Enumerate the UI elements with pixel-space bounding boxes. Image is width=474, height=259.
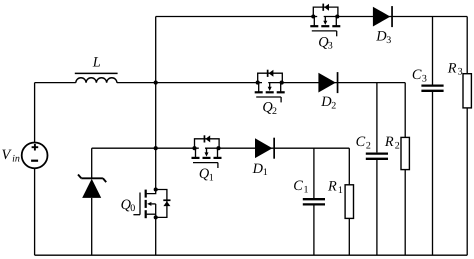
node: Q1 drain dot [192,146,196,150]
svg-text:3: 3 [386,35,391,46]
zener diode bar [81,177,103,179]
transistor Q1 body-diode bar [204,135,206,142]
svg-text:C: C [412,67,422,83]
svg-text:D: D [252,161,264,177]
wire: R1 branch top lead [348,148,350,185]
svg-text:1: 1 [304,185,309,196]
transistor Q2 bulk arrow [269,83,271,88]
wire: C1 branch top lead [313,148,315,198]
wire: right rail top (corner to R3) [466,17,468,74]
wire: row 3 from zener corner to Q1 [92,147,199,149]
transistor Q3 (Q3) body-diode loop [313,7,338,16]
wire: left rail top (corner to Vin) [34,83,36,143]
inductor L core bar [75,72,118,74]
diode D2 cathode bar [337,72,339,93]
wire: top rail (row 1) from node column to Q3 [156,16,318,18]
wire: R1 branch bottom lead [348,218,350,255]
node: Q3 source dot [335,14,339,18]
node: inductor/column junction [154,81,158,85]
transistor Q2 channel dashes [255,91,263,93]
diode D2 triangle [318,73,335,93]
transistor Q3 gate bar [312,30,337,32]
wire: row 2 inductor to Q2 [117,82,262,84]
wire: zener branch top lead [91,148,93,178]
transistor Q1 body-diode triangle [205,135,210,142]
wire: row 1 from Q3 channel to top-right corner [324,16,468,18]
wire: C3 branch top lead [432,17,434,85]
wire: right rail bottom (R3 to bottom rail) [466,108,468,255]
wire: Q0 source to bottom rail [155,217,157,255]
transistor Q2 body-diode bar [267,70,269,77]
diode D1 triangle [255,138,272,158]
source Vin circle [22,143,48,169]
svg-text:2: 2 [272,106,277,117]
transistor Q1 gate lead [217,163,219,168]
capacitor C1 [303,198,325,200]
svg-text:3: 3 [422,73,427,84]
transistor Q0 gate lead [133,214,140,216]
zener diode triangle [82,179,101,198]
wire: C1 branch bottom lead [313,206,315,256]
transistor Q3 channel dashes [310,25,318,27]
transistor Q0 bulk arrow [151,203,156,205]
svg-text:0: 0 [130,203,135,214]
wire: C2 branch top lead [376,83,378,153]
transistor Q1 source stub [217,148,219,158]
svg-text:1: 1 [338,185,343,196]
transistor Q0 drain stub [147,190,156,194]
node: Q2 drain dot [256,81,260,85]
wire: C2 branch bottom lead [376,160,378,255]
svg-text:3: 3 [458,67,463,78]
node: Q0 drain dot [154,187,158,191]
svg-text:2: 2 [395,141,400,152]
svg-text:R: R [327,179,337,195]
node: Q0 source dot [154,215,158,219]
source Vin plus sign [34,144,36,151]
inductor L coils [76,78,117,83]
transistor Q2 source stub [280,83,282,93]
svg-text:in: in [12,154,20,165]
wire: zener branch bottom lead [91,198,93,255]
svg-text:2: 2 [331,100,336,111]
diode D3 cathode bar [391,6,393,27]
svg-text:2: 2 [366,141,371,152]
transistor Q0 source jog [155,204,157,218]
transistor Q1 (Q1) body-diode loop [195,139,220,148]
node: row3/column junction [154,146,158,150]
wire: row 2 from Q2 channel to R2 corner [268,82,405,84]
transistor Q2 drain stub [258,83,260,93]
source Vin minus sign [31,160,38,162]
svg-text:1: 1 [209,172,214,183]
wire: left rail bottom (Vin to bottom rail) [34,168,36,255]
wire: node column row1 to row3 [155,17,157,149]
capacitor C2 [366,152,388,154]
wire: bottom rail [35,254,468,256]
svg-text:R: R [384,134,394,150]
transistor Q3 source stub [335,17,337,27]
transistor Q1 gate bar [193,162,218,164]
svg-text:C: C [356,134,366,150]
transistor Q3 gate lead [336,31,338,36]
svg-text:1: 1 [263,167,268,178]
wire: row 3 from Q1 channel to R1 corner [205,147,349,149]
transistor Q3 drain stub [313,17,315,27]
diode D3 triangle [373,7,390,27]
transistor Q3 body-diode bar [322,4,324,11]
transistor Q3 bulk arrow [324,17,326,22]
transistor Q2 body-diode triangle [269,70,274,77]
node: Q1 source dot [216,146,220,150]
transistor Q0 body-diode loop [156,190,167,218]
transistor Q0 channel dashes [145,190,147,198]
wire: R2 branch bottom lead [404,170,406,256]
resistor R2 body [401,137,409,169]
transistor Q0 body-diode bar [163,199,170,201]
svg-text:L: L [92,55,101,71]
svg-text:C: C [293,178,303,194]
resistor R3 body [463,74,471,108]
svg-text:R: R [447,60,457,76]
wire: node column row3 to Q0 drain [155,148,157,189]
svg-text:3: 3 [328,41,333,52]
wire: row 2 left rail corner to inductor [35,82,76,84]
transistor Q0 body-diode triangle [163,201,170,206]
transistor Q1 drain stub [195,148,197,158]
capacitor C3 [421,84,443,86]
node: Q3 drain dot [311,14,315,18]
transistor Q2 gate lead [280,97,282,102]
transistor Q1 channel dashes [192,157,200,159]
wire: R2 branch top lead [404,83,406,138]
transistor Q0 source stub [147,213,156,215]
transistor Q0 gate bar [139,193,141,215]
transistor Q3 body-diode triangle [324,4,329,11]
diode D1 cathode bar [273,138,275,159]
node: Q2 source dot [280,81,284,85]
transistor Q2 (Q2) body-diode loop [258,73,283,82]
resistor R1 body [345,185,353,219]
transistor Q2 gate bar [256,96,281,98]
transistor Q1 bulk arrow [206,148,208,153]
wire: C3 branch bottom lead [432,92,434,255]
